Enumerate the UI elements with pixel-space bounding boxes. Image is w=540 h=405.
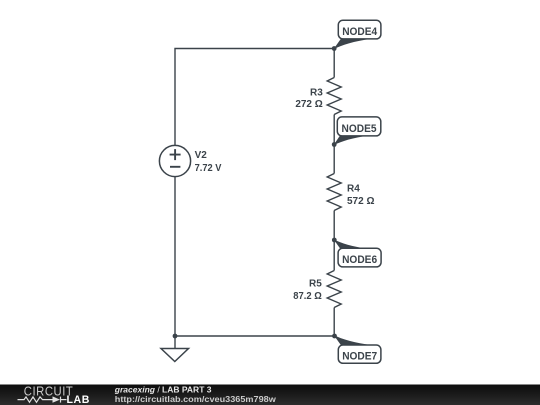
node NODE5 flag tail [333,136,369,146]
svg-text:NODE4: NODE4 [342,26,378,38]
svg-text:R5: R5 [309,278,322,289]
svg-text:R4: R4 [347,184,360,195]
node NODE6 flag tail [333,239,367,249]
node NODE7 flag tail [334,335,373,346]
wire right rail: R5 to bottom [333,308,335,337]
resistor R5 [327,271,341,308]
svg-text:572 Ω: 572 Ω [347,196,374,207]
wire right rail: NODE4 to R3 [333,49,335,78]
wire bottom horizontal [175,335,335,337]
voltage source V2 [159,145,190,176]
svg-text:R3: R3 [310,88,323,99]
wire top horizontal [175,49,334,146]
svg-text:LAB: LAB [67,394,91,405]
node junction NODE6 [332,238,337,243]
node NODE4 flag tail [333,39,371,50]
wire right rail: R4 to R5 (through NODE6) [333,211,335,271]
node junction NODE7 [332,334,337,339]
svg-text:272 Ω: 272 Ω [295,99,322,110]
resistor R3 [327,78,341,115]
CircuitLab logo schematic squiggle [18,397,67,403]
svg-text:NODE7: NODE7 [342,351,377,363]
node NODE4 label [338,20,381,39]
svg-text:7.72 V: 7.72 V [195,163,222,174]
wire right rail: R3 to R4 (through NODE5) [333,115,335,174]
ground [161,349,189,362]
node NODE5 label [337,117,381,136]
svg-text:NODE5: NODE5 [342,123,377,135]
svg-text:gracexing / LAB PART 3: gracexing / LAB PART 3 [114,385,212,395]
node junction ground [173,334,178,339]
node junction NODE5 [332,142,337,147]
svg-text:V2: V2 [195,150,208,161]
svg-text:NODE6: NODE6 [342,254,377,266]
node junction NODE4 [332,46,337,51]
node NODE7 label [338,345,381,363]
svg-text:http://circuitlab.com/cveu3365: http://circuitlab.com/cveu3365m798w [115,394,276,404]
svg-text:87.2 Ω: 87.2 Ω [293,291,322,302]
wire ground stub [174,336,176,349]
resistor R4 [327,174,341,211]
node NODE6 label [338,248,381,267]
wire left rail lower [174,177,176,336]
